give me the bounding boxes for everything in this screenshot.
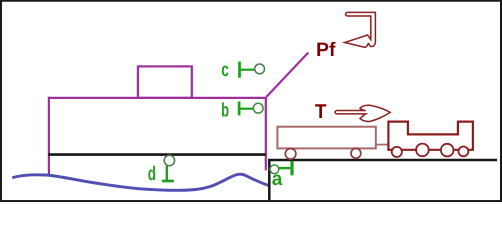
- tractor wheel big right: [441, 144, 454, 157]
- hull box of floating vehicle (large magenta body): [48, 97, 267, 174]
- bent arrow beside Pf: [345, 12, 376, 47]
- tow line to Pf: [267, 53, 309, 97]
- svg-text:Pf: Pf: [316, 39, 336, 61]
- quay step (black vertical edge): [268, 159, 271, 201]
- svg-text:T: T: [315, 101, 327, 123]
- dimension symbol d (vertical): [162, 155, 175, 181]
- trailer body: [277, 127, 375, 149]
- dimension symbol c: [240, 62, 265, 78]
- trailer wheel left: [285, 149, 296, 160]
- cab box on top of hull: [138, 66, 192, 98]
- water surface (blue wavy line): [13, 174, 268, 190]
- dimension symbol a: [270, 161, 292, 175]
- tractor wheel small left: [392, 147, 402, 157]
- tension arrow (outline, pointing right): [335, 105, 390, 121]
- tractor wheel big left: [416, 144, 429, 157]
- dimension symbol b: [239, 102, 263, 116]
- svg-text:d: d: [148, 163, 156, 185]
- trailer wheel right: [351, 148, 361, 158]
- waterline (black line across hull): [48, 153, 266, 156]
- tractor body: [388, 122, 473, 150]
- ground / road line: [268, 159, 497, 162]
- tractor wheel small right: [459, 147, 469, 157]
- svg-text:b: b: [221, 99, 229, 121]
- svg-text:c: c: [221, 59, 229, 81]
- hitch bar: [376, 144, 389, 146]
